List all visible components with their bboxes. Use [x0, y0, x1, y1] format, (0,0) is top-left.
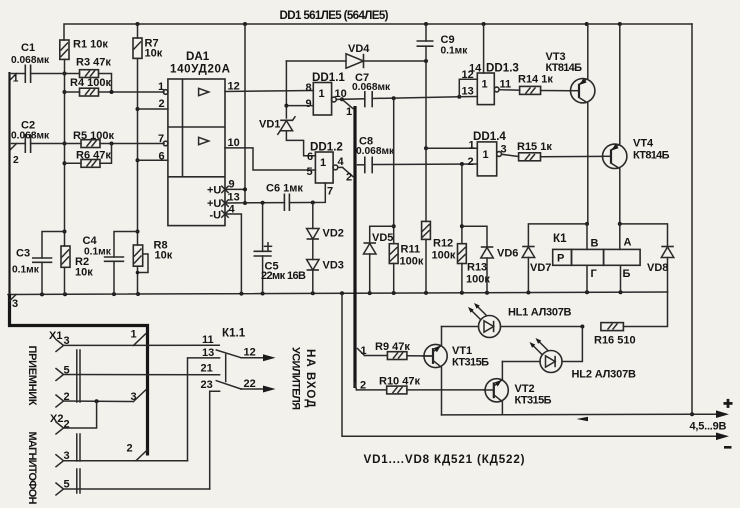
svg-text:Г: Г — [591, 268, 598, 280]
svg-text:R5 100к: R5 100к — [73, 130, 114, 142]
svg-text:10к: 10к — [155, 250, 173, 262]
diode VD2 — [307, 203, 344, 240]
svg-text:+U: +U — [207, 185, 221, 197]
output 12 arrow — [241, 347, 275, 362]
capacitor C9 — [417, 24, 434, 150]
svg-text:13: 13 — [228, 192, 240, 204]
resistor R7 — [133, 38, 142, 58]
resistor R2 — [61, 246, 70, 267]
resistor R13 — [458, 244, 467, 293]
resistor R16 — [601, 292, 668, 331]
wire: feedback vertical with VD1 — [284, 61, 288, 118]
LED HL2 — [502, 327, 582, 373]
svg-text:R4 100к: R4 100к — [70, 77, 111, 89]
svg-text:R11: R11 — [401, 244, 421, 256]
svg-text:4,5...9В: 4,5...9В — [690, 421, 727, 433]
small arrow mark on emitter rail — [577, 417, 589, 421]
svg-text:12: 12 — [228, 81, 240, 93]
svg-text:1: 1 — [158, 81, 164, 93]
output 22 arrow — [241, 378, 275, 393]
svg-text:VD8: VD8 — [647, 262, 668, 274]
svg-text:R9 47к: R9 47к — [375, 341, 410, 353]
svg-text:ПРИЕМНИК: ПРИЕМНИК — [26, 346, 38, 406]
contact 13 wire — [188, 347, 220, 461]
svg-text:0.068мк: 0.068мк — [352, 82, 391, 93]
svg-text:12: 12 — [244, 347, 256, 359]
svg-text:КТ814Б: КТ814Б — [546, 62, 583, 74]
svg-text:УСИЛИТЕЛЯ: УСИЛИТЕЛЯ — [290, 347, 302, 410]
DA1 pin 9 +U — [207, 179, 245, 197]
resistor R14 — [520, 86, 571, 94]
connector X2 pin 2 — [56, 401, 97, 434]
node 2 entry diagonal to bus — [127, 443, 148, 461]
capacitor C8 — [358, 157, 478, 174]
group line bus left — [10, 72, 148, 456]
LED HL1 — [442, 303, 585, 338]
svg-text:3: 3 — [501, 144, 507, 156]
relay K1 coil — [553, 224, 640, 292]
DA1 pin 12 output wire to DD1.1 pin 8 — [225, 81, 313, 93]
diode VD4 — [286, 43, 428, 68]
logic gate DD1.1 — [286, 82, 346, 115]
svg-text:1: 1 — [13, 74, 19, 85]
node 1 entry diagonal to bus — [131, 329, 146, 346]
wire: top +U rail — [64, 22, 692, 40]
svg-text:МАГНИТОФОН: МАГНИТОФОН — [26, 432, 38, 505]
logic gate DD1.3 — [459, 24, 519, 105]
svg-text:+U: +U — [207, 198, 221, 210]
svg-text:НА ВХОД: НА ВХОД — [304, 349, 317, 408]
svg-text:4: 4 — [338, 156, 345, 168]
wire: minus branch to battery — [342, 293, 729, 440]
transistor VT1 — [423, 327, 447, 415]
svg-text:21: 21 — [201, 363, 213, 375]
svg-text:R14 1к: R14 1к — [518, 74, 553, 86]
svg-text:2: 2 — [13, 155, 19, 166]
logic gate DD1.2 — [307, 151, 345, 198]
svg-text:VD5: VD5 — [372, 232, 393, 244]
svg-text:2: 2 — [468, 156, 474, 168]
wire: R13 drop from C8 row — [460, 164, 464, 244]
wire: plus rail right side — [690, 24, 729, 418]
svg-text:5: 5 — [307, 166, 313, 178]
svg-text:0.068мк: 0.068мк — [11, 55, 50, 66]
svg-text:C6 1мк: C6 1мк — [266, 183, 303, 195]
svg-text:7: 7 — [327, 186, 333, 198]
label plus terminal — [724, 399, 733, 408]
diode VD1 — [259, 117, 315, 156]
op-amp DA1 — [168, 79, 225, 226]
svg-text:DD1.3: DD1.3 — [486, 62, 519, 75]
svg-text:1: 1 — [320, 157, 326, 169]
switch blade 1 — [216, 350, 241, 358]
svg-text:VT1: VT1 — [452, 345, 472, 357]
wire: emitter rail VT1 VT2 to plus — [442, 413, 693, 416]
connector X2 pin 3 — [56, 450, 188, 467]
svg-text:9: 9 — [229, 179, 235, 191]
svg-text:DA1: DA1 — [186, 50, 210, 63]
svg-text:R6 47к: R6 47к — [76, 150, 111, 162]
capacitor C3 — [32, 232, 65, 295]
wire: pin13 / C6 row — [225, 183, 325, 205]
resistor R9 — [365, 352, 434, 360]
svg-text:4: 4 — [229, 204, 236, 216]
svg-text:22: 22 — [244, 378, 256, 390]
svg-text:2: 2 — [127, 443, 133, 455]
label minus terminal — [724, 446, 732, 449]
svg-text:R10 47к: R10 47к — [379, 376, 420, 388]
capacitor C2 — [10, 134, 65, 153]
cable marks pair 3 — [77, 434, 80, 461]
svg-text:C4: C4 — [83, 235, 98, 247]
svg-text:КТ814Б: КТ814Б — [633, 150, 670, 162]
svg-text:К1.1: К1.1 — [222, 327, 246, 340]
node 3 entry diagonal to bus — [131, 390, 146, 403]
transistor VT2 — [484, 362, 508, 415]
wire: left vertical A — [63, 59, 67, 294]
resistor R1 — [60, 40, 69, 59]
svg-text:VD4: VD4 — [348, 43, 370, 55]
resistor R12 — [422, 148, 431, 293]
cable marks pair 2 — [77, 378, 80, 403]
wire: ground rail node 3 — [8, 290, 668, 296]
svg-text:КТ315Б: КТ315Б — [515, 395, 552, 407]
resistor R8 trimmer — [133, 245, 148, 274]
node 1 entry to group line — [340, 97, 353, 118]
svg-text:VD7: VD7 — [530, 262, 551, 274]
resistor R4 — [65, 88, 165, 96]
svg-text:VD2: VD2 — [323, 228, 344, 240]
svg-text:R16 510: R16 510 — [594, 335, 636, 347]
svg-text:11: 11 — [202, 334, 214, 346]
resistor R10 — [357, 386, 485, 394]
svg-text:R15 1к: R15 1к — [517, 141, 552, 153]
svg-text:В: В — [591, 238, 599, 250]
svg-text:6: 6 — [159, 151, 165, 163]
group line bus right — [353, 106, 356, 388]
svg-text:DD1.1: DD1.1 — [312, 71, 345, 84]
svg-text:DD1 561ЛЕ5 (564ЛЕ5): DD1 561ЛЕ5 (564ЛЕ5) — [280, 9, 389, 22]
svg-text:R1 10к: R1 10к — [73, 39, 108, 51]
svg-text:1: 1 — [482, 79, 488, 91]
svg-text:0.068мк: 0.068мк — [356, 146, 395, 157]
svg-text:1: 1 — [346, 106, 352, 118]
diode VD3 — [307, 239, 344, 293]
cable marks pair 1 — [77, 350, 80, 376]
svg-text:0.068мк: 0.068мк — [11, 131, 50, 142]
svg-text:0.1мк: 0.1мк — [12, 265, 40, 276]
DA1 pin 6 wire — [138, 151, 168, 163]
svg-text:VD6: VD6 — [497, 248, 518, 260]
connector X1 pin 3 — [56, 335, 219, 352]
svg-text:100к: 100к — [400, 256, 424, 268]
svg-text:13: 13 — [202, 347, 214, 359]
connector X1 pin 5 — [56, 365, 220, 381]
svg-text:Б: Б — [623, 268, 631, 280]
svg-text:А: А — [624, 237, 632, 249]
resistor R15 — [519, 153, 603, 161]
diode VD7 — [522, 222, 589, 293]
svg-text:1: 1 — [131, 329, 137, 341]
wire: +U supply drop from top rail — [243, 24, 247, 205]
capacitor C5 electrolytic — [254, 203, 272, 294]
diode VD8 — [618, 222, 674, 292]
DA1 pin 2 wire — [138, 98, 168, 110]
svg-text:12: 12 — [462, 69, 474, 81]
svg-text:HL2 АЛ307В: HL2 АЛ307В — [572, 369, 637, 381]
node 2 entry to group line — [343, 167, 353, 183]
cable marks pair 4 — [77, 469, 80, 493]
svg-text:VD3: VD3 — [323, 260, 344, 272]
svg-text:10к: 10к — [75, 267, 93, 279]
svg-text:0.1мк: 0.1мк — [441, 46, 469, 57]
svg-text:100к: 100к — [432, 250, 456, 262]
resistor R3 — [65, 70, 112, 92]
svg-text:8: 8 — [306, 82, 312, 94]
svg-text:R13: R13 — [467, 262, 487, 274]
svg-text:1: 1 — [483, 149, 489, 161]
svg-text:VT2: VT2 — [515, 383, 535, 395]
svg-text:3: 3 — [131, 391, 137, 403]
connector X2 pin 5 — [56, 479, 210, 496]
svg-text:22мк 16В: 22мк 16В — [261, 270, 306, 282]
connector X1 pin 2 — [56, 391, 134, 407]
capacitor C6 — [284, 194, 289, 212]
svg-text:2: 2 — [159, 98, 165, 110]
svg-text:HL1 АЛ307В: HL1 АЛ307В — [508, 307, 572, 319]
svg-text:1: 1 — [319, 88, 325, 100]
svg-text:9: 9 — [306, 98, 312, 110]
resistor R11 — [389, 244, 398, 293]
svg-text:VT4: VT4 — [633, 138, 654, 150]
svg-text:C1: C1 — [21, 42, 35, 54]
resistor R5 — [65, 140, 165, 148]
DA1 pin 7 input bubble — [158, 133, 168, 146]
node 2 exit from group line to R10 — [355, 380, 366, 392]
wire: R11 drop from C7 row — [392, 98, 396, 244]
wire: vertical B R7/R8 — [136, 24, 140, 294]
svg-text:10: 10 — [228, 137, 240, 149]
svg-text:3: 3 — [12, 298, 18, 310]
svg-text:C3: C3 — [16, 248, 30, 260]
svg-text:C9: C9 — [441, 34, 455, 46]
svg-text:2: 2 — [346, 172, 352, 184]
svg-text:140УД20А: 140УД20А — [170, 63, 231, 76]
DA1 pin 4 -U — [210, 204, 242, 294]
svg-text:R12: R12 — [433, 238, 453, 250]
DA1 pin 1 input bubble — [158, 81, 168, 94]
transistor VT3 — [571, 24, 595, 224]
node 1 exit from group line to R9 — [358, 345, 367, 357]
svg-text:7: 7 — [158, 133, 164, 145]
svg-text:VD1....VD8 КД521 (КД522): VD1....VD8 КД521 (КД522) — [364, 453, 525, 466]
capacitor C7 — [342, 91, 461, 107]
capacitor C1 — [10, 65, 65, 84]
svg-text:Р: Р — [557, 253, 564, 265]
diode VD5 — [364, 226, 394, 293]
svg-text:DD1.2: DD1.2 — [310, 141, 343, 154]
svg-text:DD1.4: DD1.4 — [473, 130, 506, 143]
logic gate DD1.4 — [426, 140, 519, 176]
svg-text:VD1: VD1 — [259, 119, 280, 131]
svg-text:К1: К1 — [553, 232, 567, 245]
capacitor C4 — [104, 232, 138, 295]
blade link — [225, 355, 227, 382]
svg-text:R3 47к: R3 47к — [76, 57, 111, 69]
svg-text:-U: -U — [210, 210, 222, 222]
resistor R6 — [65, 144, 112, 168]
svg-text:10к: 10к — [145, 48, 163, 60]
svg-text:23: 23 — [201, 379, 213, 391]
DA1 pin 13 +U — [207, 192, 240, 211]
svg-text:13: 13 — [462, 86, 474, 98]
svg-text:11: 11 — [500, 79, 512, 91]
contact 23 wire — [201, 379, 220, 489]
svg-text:КТ315Б: КТ315Б — [452, 357, 489, 369]
switch blade 2 — [216, 381, 241, 389]
svg-text:0.1мк: 0.1мк — [84, 247, 112, 258]
DA1 pin 10 output wire to DD1.2 pin 5 — [225, 137, 315, 170]
node 3 exit diagonal at ground rail — [10, 295, 17, 302]
diode VD6 — [462, 226, 519, 292]
transistor VT4 — [603, 24, 627, 224]
